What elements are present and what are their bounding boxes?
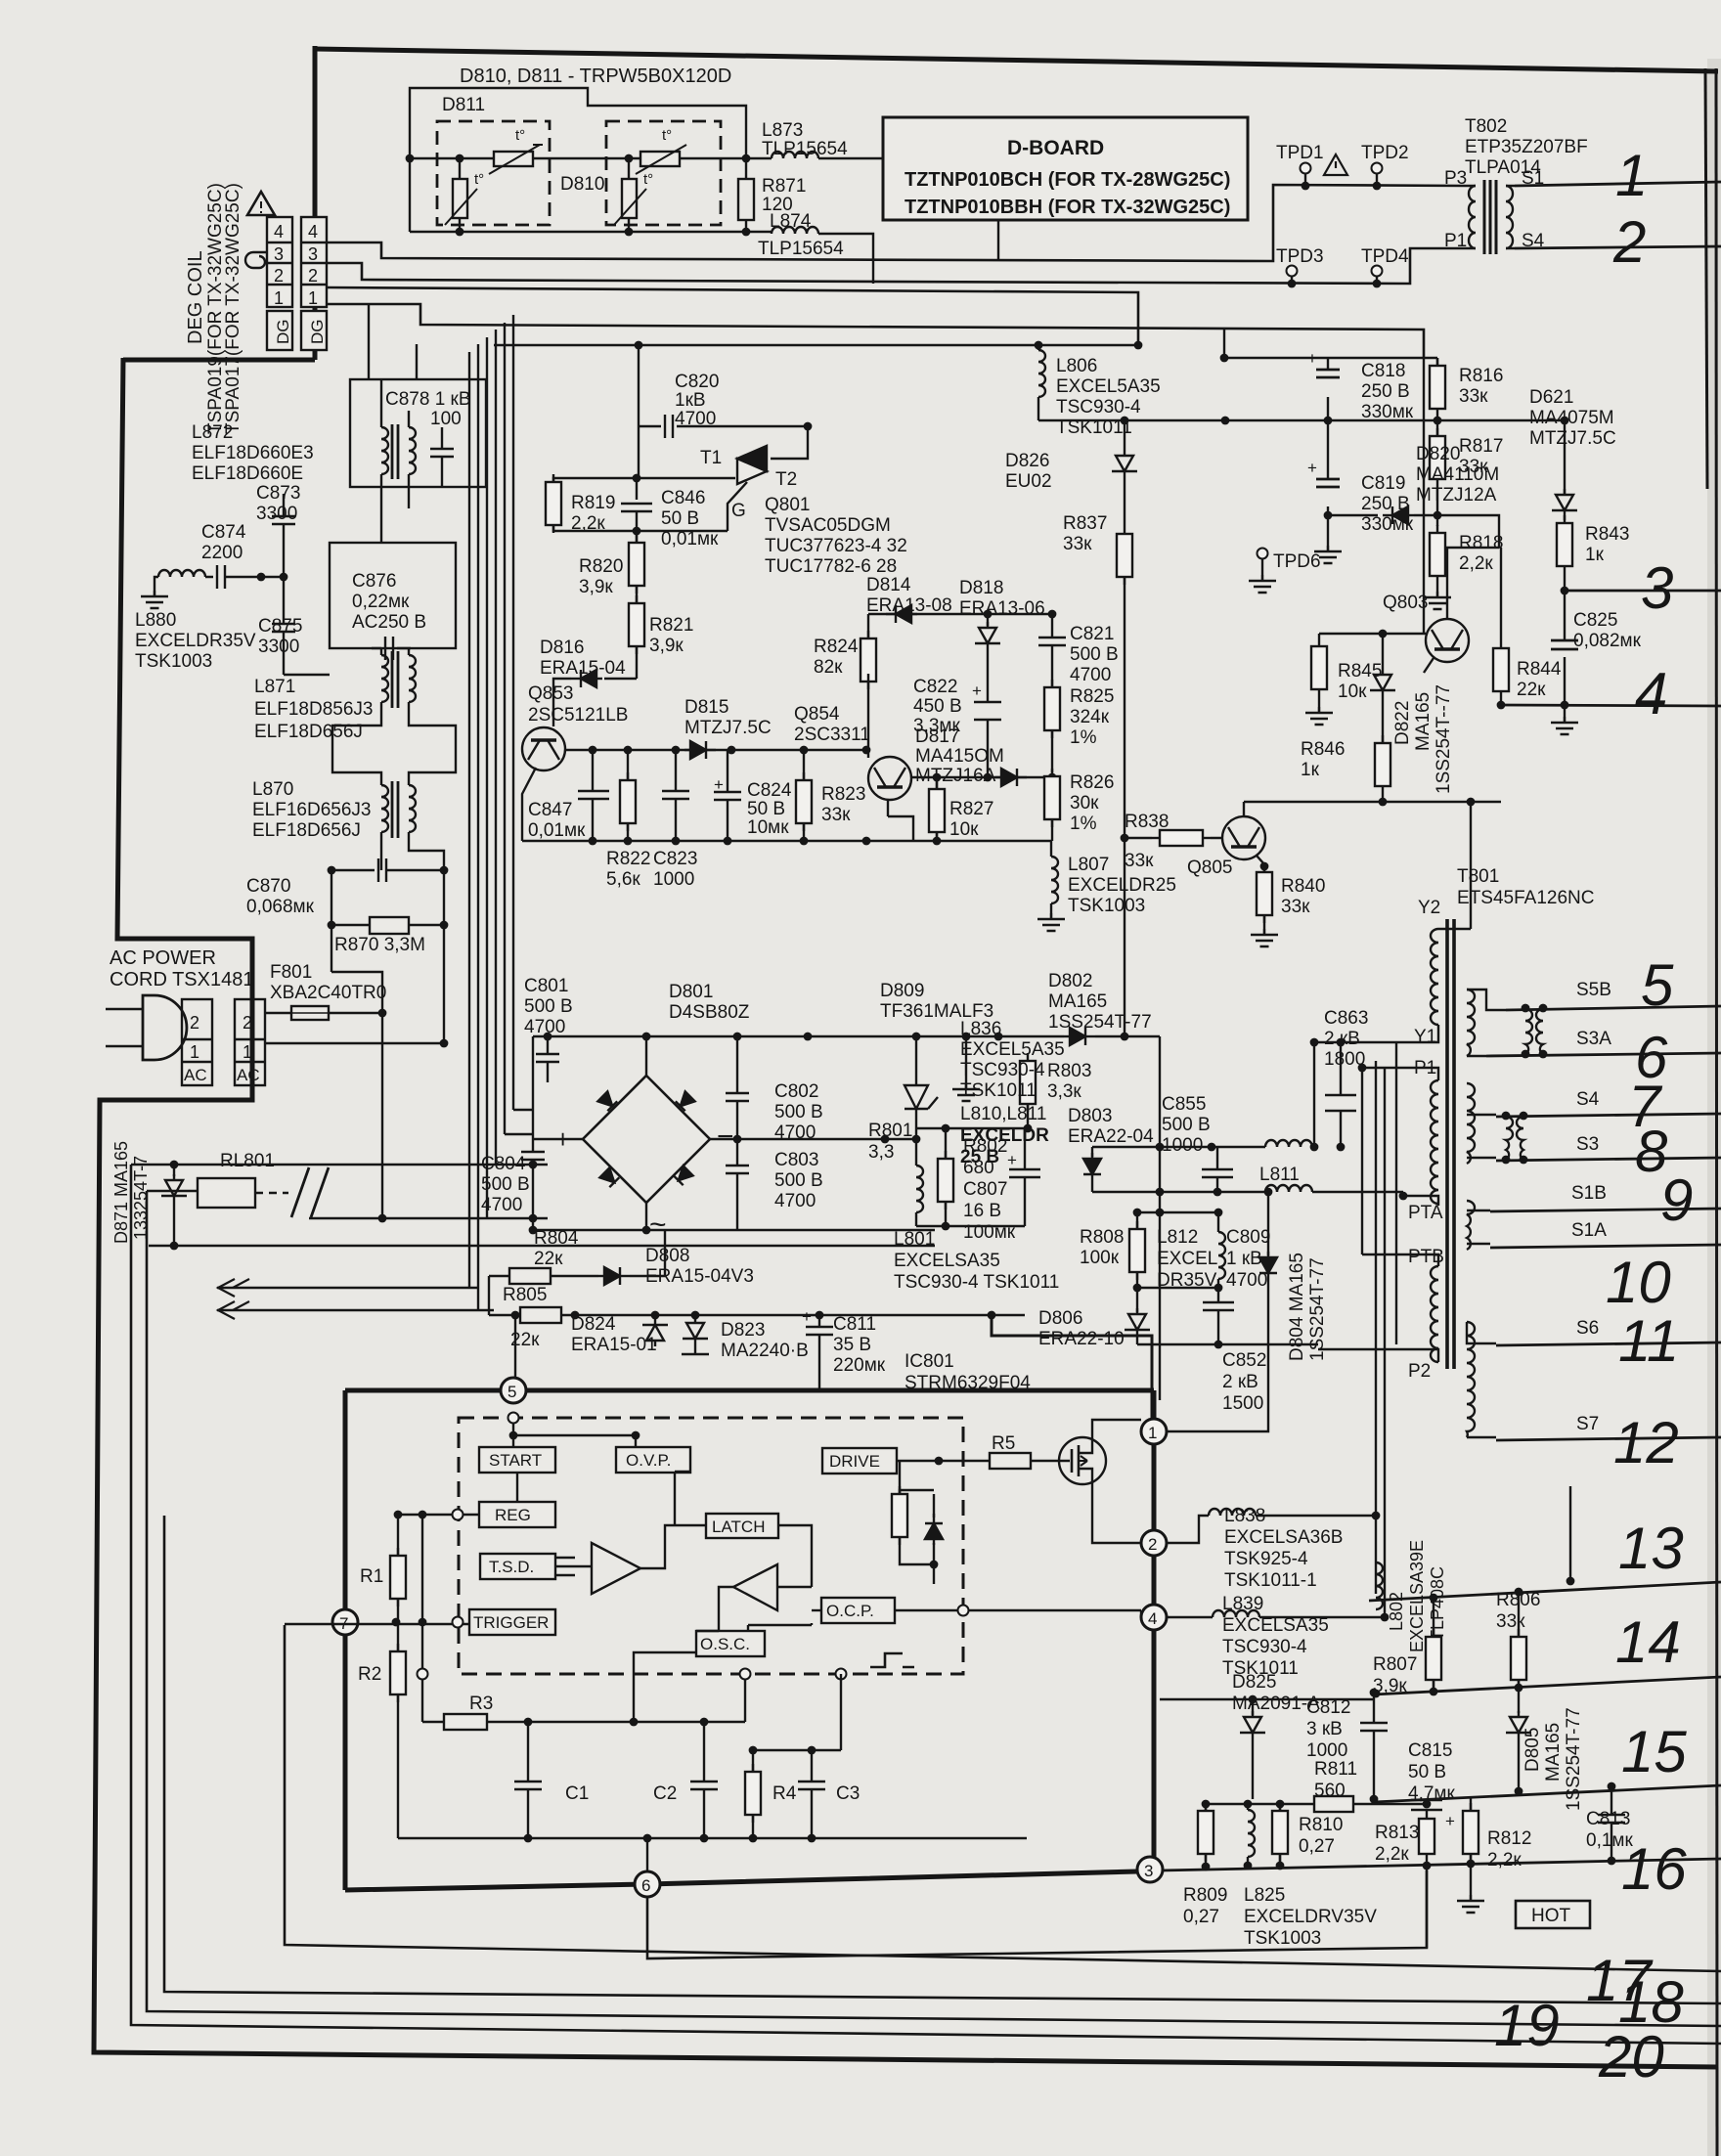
resistor R802 (945, 1128, 947, 1161)
svg-text:S6: S6 (1576, 1318, 1599, 1339)
box LATCH (706, 1514, 778, 1538)
node junction dots varistor (406, 154, 415, 163)
svg-text:2: 2 (1612, 209, 1646, 275)
svg-text:ELF18D660E: ELF18D660E (192, 463, 303, 484)
svg-text:4: 4 (274, 222, 284, 242)
svg-text:1000: 1000 (653, 869, 694, 890)
svg-text:ELF18D856J3: ELF18D856J3 (254, 699, 373, 720)
resistor R820 (636, 531, 638, 545)
resistor R840 (1257, 864, 1272, 923)
svg-text:0,27: 0,27 (1299, 1836, 1335, 1857)
svg-text:1: 1 (1615, 143, 1648, 208)
dashed box D810 (606, 121, 721, 225)
connector DEG column2 (301, 217, 327, 350)
svg-text:C804: C804 (481, 1154, 526, 1174)
box START (479, 1447, 555, 1473)
box OCP (821, 1598, 895, 1623)
svg-text:TSK1011: TSK1011 (960, 1080, 1037, 1101)
SECTION_BOTTOMRIGHT (1160, 1486, 1633, 1949)
svg-text:R870 3,3M: R870 3,3M (334, 935, 425, 955)
svg-text:500 B: 500 B (1162, 1115, 1211, 1135)
svg-text:D822: D822 (1392, 701, 1413, 745)
capacitor C873 (272, 494, 295, 577)
wire S7 return to line13 (1569, 1486, 1571, 1581)
svg-text:2SC5121LB: 2SC5121LB (528, 705, 628, 726)
transformer L870 (381, 785, 388, 832)
svg-text:R801: R801 (868, 1121, 912, 1141)
svg-text:C813: C813 (1586, 1809, 1630, 1829)
svg-text:MTZJ7.5C: MTZJ7.5C (684, 718, 772, 738)
svg-text:2: 2 (190, 1013, 199, 1033)
svg-text:D826: D826 (1005, 451, 1049, 471)
svg-text:82к: 82к (814, 657, 843, 678)
svg-text:1SS254T-77: 1SS254T-77 (1307, 1257, 1328, 1361)
svg-text:500 B: 500 B (774, 1170, 823, 1191)
svg-text:R818: R818 (1459, 533, 1503, 553)
svg-text:4: 4 (308, 222, 318, 242)
resistor R871 (738, 158, 754, 232)
wire vertical x1456 (1423, 358, 1425, 634)
svg-text:t°: t° (643, 171, 653, 188)
svg-text:+: + (802, 1307, 812, 1326)
coil L880 (158, 570, 205, 577)
svg-text:+: + (555, 1124, 570, 1154)
svg-text:3: 3 (274, 244, 284, 264)
svg-text:2,2к: 2,2к (1375, 1844, 1409, 1865)
svg-text:+: + (972, 682, 982, 700)
svg-text:33к: 33к (1125, 851, 1154, 871)
svg-text:D804 MA165: D804 MA165 (1287, 1253, 1307, 1361)
SECTION_CENTER (522, 345, 1176, 931)
capacitor C878 (430, 435, 454, 470)
SECTION_TOPLEFT (185, 66, 998, 434)
svg-text:TLP408C: TLP408C (1428, 1566, 1447, 1641)
svg-text:S7: S7 (1576, 1414, 1599, 1434)
svg-text:D815: D815 (684, 697, 728, 718)
svg-text:11: 11 (1618, 1308, 1679, 1374)
svg-text:Y1: Y1 (1414, 1027, 1436, 1047)
svg-text:R871: R871 (762, 176, 806, 197)
svg-text:1500: 1500 (1222, 1393, 1263, 1414)
svg-text:t°: t° (662, 127, 672, 144)
wire long verticals right pair (1376, 1061, 1385, 1618)
svg-text:L871: L871 (254, 677, 295, 697)
svg-text:3: 3 (308, 244, 318, 264)
svg-text:3,9к: 3,9к (649, 636, 684, 656)
svg-text:R1: R1 (360, 1566, 383, 1587)
svg-text:C825: C825 (1573, 610, 1617, 631)
wire S4 line 7 (1496, 1114, 1721, 1117)
fuse F801 (265, 1012, 291, 1014)
ground line4 (1564, 705, 1566, 717)
T801 secondary coils (1467, 990, 1475, 1056)
svg-text:L807: L807 (1068, 855, 1109, 875)
box C878 with transformer L872 (350, 379, 486, 487)
svg-text:C876: C876 (352, 571, 396, 592)
svg-text:MA165: MA165 (1413, 692, 1434, 751)
svg-text:3 кB: 3 кB (1306, 1719, 1343, 1739)
handwritten numbers right edge (1494, 143, 1693, 2090)
svg-text:D809: D809 (880, 981, 924, 1001)
ground R812 (1470, 1864, 1472, 1895)
diode D804 (1267, 1192, 1269, 1255)
svg-text:3: 3 (1144, 1862, 1153, 1880)
svg-text:450 B: 450 B (913, 696, 962, 717)
svg-text:TLP15654: TLP15654 (762, 139, 848, 159)
svg-text:TPD3: TPD3 (1276, 246, 1324, 267)
svg-text:R812: R812 (1487, 1828, 1531, 1849)
svg-text:CORD TSX1481: CORD TSX1481 (110, 969, 253, 990)
svg-text:ERA13-06: ERA13-06 (959, 598, 1045, 619)
box TSD (480, 1554, 555, 1579)
svg-text:100к: 100к (1080, 1248, 1120, 1268)
wire START-REG (516, 1473, 518, 1502)
svg-text:R3: R3 (469, 1694, 493, 1714)
svg-text:R807: R807 (1373, 1654, 1417, 1675)
svg-text:C873: C873 (256, 483, 300, 504)
wire bottom rail C852 (1137, 1343, 1318, 1345)
ground R818 (1436, 584, 1438, 592)
svg-text:C811: C811 (833, 1314, 876, 1335)
svg-text:3,3к: 3,3к (1047, 1081, 1081, 1102)
coil L825 (1247, 1804, 1249, 1810)
wire DRIVE to R5 (897, 1460, 990, 1462)
amplifier triangle (592, 1543, 640, 1594)
transformer L872 (381, 427, 388, 474)
svg-text:R823: R823 (821, 784, 865, 805)
wire line 4 (1499, 705, 1721, 706)
SECTION_TOPRIGHT (494, 116, 1642, 1040)
svg-text:T802: T802 (1465, 116, 1507, 137)
arrows left pair (217, 1288, 494, 1310)
connector AC column1 (182, 999, 212, 1085)
svg-text:1к: 1к (1585, 545, 1605, 565)
svg-text:MA415OM: MA415OM (915, 746, 1004, 767)
svg-text:P1: P1 (1444, 231, 1467, 251)
svg-text:Q853: Q853 (528, 683, 573, 704)
svg-text:TSK1011-1: TSK1011-1 (1224, 1570, 1317, 1591)
svg-text:C801: C801 (524, 976, 568, 996)
wire L810 row (1092, 1146, 1265, 1148)
wire L812 block top (1136, 1191, 1138, 1193)
filter transformer S5B/S3A (1522, 1004, 1548, 1059)
wire OCP right to pin4 (895, 1610, 1141, 1617)
svg-text:16 B: 16 B (963, 1201, 1001, 1221)
svg-text:C863: C863 (1324, 1008, 1368, 1029)
T801 wires Y2 Y1 P1 PTA PTB P2 (1314, 929, 1471, 1362)
diode D816 (604, 646, 637, 679)
svg-text:C820: C820 (675, 372, 719, 392)
wire bottom rail IC (398, 1837, 1027, 1839)
svg-text:MA165: MA165 (1543, 1723, 1564, 1782)
svg-text:R827: R827 (949, 799, 993, 819)
svg-text:C875: C875 (258, 616, 302, 637)
wire relay mid (147, 1190, 198, 1192)
svg-text:R825: R825 (1070, 686, 1114, 707)
capacitor C874 (205, 565, 261, 589)
svg-text:R808: R808 (1080, 1227, 1124, 1248)
thermistor D810 horizontal (636, 127, 686, 174)
node pin5 internal (508, 1413, 519, 1424)
svg-text:EXCELDR35V: EXCELDR35V (135, 631, 256, 651)
SECTION_IC (285, 1378, 1447, 1897)
T801 core (1447, 919, 1454, 1369)
capacitor C824 (714, 750, 741, 841)
svg-text:3300: 3300 (256, 504, 297, 524)
wire TSD-triangle link (634, 1652, 696, 1722)
wire mid row (1137, 1287, 1218, 1289)
transformer L871 (381, 655, 388, 702)
wire Q805 collector rail (1244, 802, 1501, 816)
connector DEG column1 (267, 217, 292, 350)
svg-text:3,3: 3,3 (868, 1142, 894, 1163)
wire through D811 (410, 157, 606, 159)
svg-text:R846: R846 (1301, 739, 1345, 760)
wire line 14 (1374, 1677, 1721, 1694)
svg-text:0,1мк: 0,1мк (1586, 1830, 1633, 1851)
box DRIVE (822, 1448, 897, 1474)
svg-text:TSC930-4: TSC930-4 (1056, 397, 1141, 418)
svg-text:220мк: 220мк (833, 1355, 886, 1376)
svg-text:50 B: 50 B (1408, 1762, 1446, 1782)
svg-text:L810,L811: L810,L811 (960, 1104, 1046, 1124)
svg-text:TPD1: TPD1 (1276, 143, 1324, 163)
vertical bundle (469, 315, 513, 1310)
svg-text:324к: 324к (1070, 707, 1110, 727)
svg-text:T1: T1 (700, 448, 722, 468)
svg-text:ERA22-04: ERA22-04 (1068, 1126, 1154, 1147)
SECTION_MIDLEFT (106, 304, 1025, 1390)
resistor R825 (1044, 680, 1060, 738)
svg-text:10мк: 10мк (747, 817, 789, 838)
wire pin1 out (1167, 1410, 1268, 1431)
svg-text:ERA15-01: ERA15-01 (571, 1335, 657, 1355)
svg-text:S4: S4 (1522, 231, 1545, 251)
resistor R845 (1311, 638, 1327, 697)
svg-text:ELF18D656J: ELF18D656J (252, 820, 361, 841)
svg-text:EXCEL: EXCEL (1157, 1249, 1217, 1269)
svg-text:2: 2 (243, 1013, 252, 1033)
svg-text:O.C.P.: O.C.P. (826, 1602, 874, 1620)
svg-text:2SC3311: 2SC3311 (794, 725, 870, 745)
svg-text:Y2: Y2 (1418, 898, 1440, 918)
svg-text:L874: L874 (770, 211, 812, 232)
wire line 17 (285, 1625, 1721, 1971)
svg-text:D810, D811 - TRPW5B0X120D: D810, D811 - TRPW5B0X120D (460, 66, 731, 87)
svg-text:D803: D803 (1068, 1106, 1112, 1126)
svg-text:ERA15-04: ERA15-04 (540, 658, 626, 679)
svg-text:R5: R5 (992, 1433, 1015, 1454)
svg-text:C815: C815 (1408, 1740, 1452, 1761)
coil L811 (1265, 1185, 1312, 1192)
svg-text:1SS254T-77: 1SS254T-77 (1048, 1012, 1152, 1033)
svg-text:EXCELSA35: EXCELSA35 (1222, 1615, 1329, 1636)
dashed box D811 (437, 121, 550, 225)
svg-text:C822: C822 (913, 677, 957, 697)
capacitor C818 (1327, 358, 1329, 420)
svg-text:4700: 4700 (1070, 665, 1111, 685)
wire pin4 out with coil L839 (1167, 1616, 1213, 1618)
capacitor C819 (1327, 420, 1329, 536)
zener D805 (1518, 1688, 1520, 1713)
svg-text:19: 19 (1494, 1993, 1560, 2058)
capacitor C825 (1564, 591, 1566, 705)
svg-text:500 B: 500 B (1070, 644, 1119, 665)
svg-text:ETS45FA126NC: ETS45FA126NC (1457, 888, 1594, 908)
svg-text:4700: 4700 (774, 1191, 816, 1211)
svg-text:1кB: 1кB (675, 390, 706, 411)
svg-text:3,3мк: 3,3мк (913, 716, 960, 736)
amplifier triangle small (733, 1564, 777, 1610)
svg-text:−: − (717, 1121, 734, 1153)
diode D871 (170, 1161, 179, 1169)
wire L811 row (1092, 1191, 1265, 1193)
svg-text:1000: 1000 (1306, 1740, 1347, 1761)
wire box outline around thermistors (410, 88, 746, 158)
svg-text:30к: 30к (1070, 793, 1099, 814)
svg-text:C818: C818 (1361, 361, 1405, 381)
svg-text:S3: S3 (1576, 1134, 1599, 1155)
box OSC (696, 1631, 765, 1656)
svg-text:D811: D811 (442, 95, 485, 115)
svg-text:T2: T2 (775, 469, 797, 490)
svg-text:DEG COIL: DEG COIL (185, 250, 206, 344)
wire line14 left stub (1160, 1698, 1374, 1700)
zener D823 (691, 1311, 700, 1320)
svg-text:DRIVE: DRIVE (829, 1452, 880, 1471)
svg-text:0,01мк: 0,01мк (528, 820, 586, 841)
internal diode (933, 1494, 935, 1518)
svg-text:XBA2C40TR0: XBA2C40TR0 (270, 983, 386, 1003)
capacitor C822 (974, 653, 1001, 777)
connector AC column2 (235, 999, 265, 1085)
svg-text:R804: R804 (534, 1228, 579, 1249)
svg-text:10: 10 (1606, 1250, 1671, 1315)
wire base rail Q803 (1319, 633, 1426, 635)
svg-text:PTA: PTA (1408, 1203, 1443, 1223)
capacitor C1 (514, 1722, 542, 1838)
svg-text:R2: R2 (358, 1664, 381, 1685)
resistor R808 (1129, 1221, 1145, 1280)
svg-text:10к: 10к (1338, 682, 1367, 702)
svg-text:L836: L836 (960, 1019, 1001, 1039)
svg-text:14: 14 (1615, 1609, 1681, 1675)
svg-text:Q854: Q854 (794, 704, 840, 725)
svg-text:ETP35Z207BF: ETP35Z207BF (1465, 137, 1588, 157)
warning triangle (247, 192, 275, 215)
svg-text:1: 1 (274, 288, 284, 308)
svg-text:DG: DG (274, 320, 292, 345)
svg-text:9: 9 (1660, 1167, 1693, 1233)
svg-text:R821: R821 (649, 615, 693, 636)
pin 5 (501, 1378, 526, 1403)
svg-text:1SS254T-77: 1SS254T-77 (1564, 1707, 1584, 1811)
svg-text:R820: R820 (579, 556, 623, 577)
bridge D801 (583, 1076, 710, 1203)
svg-text:TZTNP010BCH (FOR TX-28WG25C): TZTNP010BCH (FOR TX-28WG25C) (905, 169, 1230, 191)
ground D809 (965, 1036, 967, 1083)
svg-text:2: 2 (308, 266, 318, 286)
svg-text:MTZJ12A: MTZJ12A (1416, 485, 1497, 506)
svg-text:C2: C2 (653, 1783, 677, 1804)
svg-text:35 B: 35 B (833, 1335, 871, 1355)
svg-text:1: 1 (243, 1042, 252, 1062)
wire pin3 hook left (245, 252, 267, 268)
wire L870 down (381, 832, 444, 870)
svg-text:5: 5 (507, 1383, 516, 1401)
wire OSC top (748, 1623, 812, 1631)
filter transformer S4/S3 (1502, 1112, 1528, 1165)
wire OCP left (812, 1609, 821, 1611)
svg-text:AC: AC (184, 1066, 207, 1084)
svg-text:TPD6: TPD6 (1273, 551, 1321, 572)
svg-text:C819: C819 (1361, 473, 1405, 494)
wire through D810 (606, 157, 746, 159)
svg-text:LATCH: LATCH (712, 1518, 765, 1536)
wire L874 to right (818, 234, 873, 284)
wire L873 net down right (997, 158, 999, 261)
resistor R821 (636, 586, 638, 605)
svg-text:2: 2 (274, 266, 284, 286)
box HOT (1516, 1901, 1590, 1928)
svg-text:C809: C809 (1226, 1227, 1270, 1248)
wire vertical x1428 (1395, 1042, 1397, 1344)
wire bottom rail small (916, 1225, 1025, 1227)
svg-text:S3A: S3A (1576, 1029, 1611, 1049)
svg-text:D806: D806 (1038, 1308, 1082, 1329)
svg-text:O.V.P.: O.V.P. (626, 1451, 671, 1470)
resistor R826 (1044, 769, 1060, 827)
svg-text:Q805: Q805 (1187, 858, 1232, 878)
wire S3A line 6 (1486, 1053, 1721, 1056)
svg-text:R838: R838 (1125, 812, 1169, 832)
resistor R822 (627, 750, 629, 782)
svg-text:D814: D814 (866, 575, 911, 595)
IC801 thick box (345, 1390, 1154, 1890)
capacitor C801 (536, 1036, 559, 1082)
svg-text:T801: T801 (1457, 866, 1499, 887)
wire Q854 emitter right (888, 777, 1052, 816)
wire left border thick (94, 358, 1718, 2067)
wire AC 1 (265, 1042, 444, 1044)
wire S1 line 1 (1515, 182, 1721, 186)
resistor R843 (1557, 515, 1572, 574)
svg-text:L806: L806 (1056, 356, 1097, 376)
svg-text:R843: R843 (1585, 524, 1629, 545)
wire D810 vertical leg (628, 158, 630, 232)
svg-text:1: 1 (1148, 1424, 1157, 1442)
svg-text:25 B: 25 B (960, 1147, 999, 1167)
wire D811 vertical leg (459, 158, 461, 232)
wire S6 line 11 (1496, 1342, 1721, 1345)
svg-text:EXCELDR25: EXCELDR25 (1068, 875, 1176, 896)
svg-text:D808: D808 (645, 1246, 689, 1266)
svg-text:TSC930-4: TSC930-4 (1222, 1637, 1307, 1657)
svg-text:D823: D823 (721, 1320, 765, 1341)
wire top border thick (315, 49, 1718, 71)
pin 3 (1137, 1857, 1163, 1882)
svg-text:C847: C847 (528, 800, 572, 820)
svg-text:Q803: Q803 (1383, 593, 1428, 613)
svg-text:TSK1003: TSK1003 (135, 651, 212, 672)
coil L812 (1218, 1232, 1225, 1279)
svg-text:O.S.C.: O.S.C. (700, 1635, 750, 1653)
wire pin6 to line16 (647, 1870, 1427, 1958)
capacitor C820 (638, 345, 640, 426)
svg-text:S1A: S1A (1571, 1220, 1607, 1241)
svg-text:L801: L801 (894, 1229, 935, 1250)
svg-text:C3: C3 (836, 1783, 860, 1804)
